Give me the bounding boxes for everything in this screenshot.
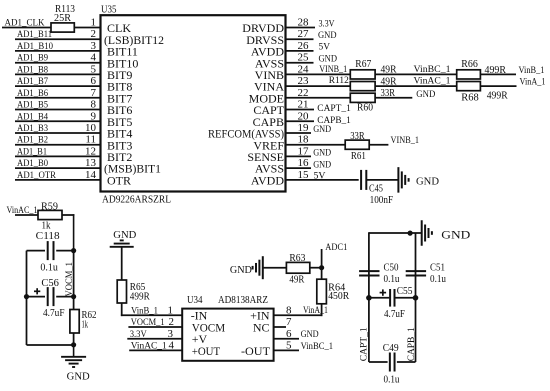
pin number 10 — [85, 122, 97, 134]
svg-text:3.3V: 3.3V — [319, 18, 335, 28]
wire C118 right — [56, 250, 73, 252]
wire net VinB_1 — [480, 73, 516, 75]
wire C55 right — [395, 297, 415, 299]
svg-text:12: 12 — [85, 145, 96, 157]
node label ADC1 — [325, 243, 347, 253]
svg-text:OTR: OTR — [107, 174, 131, 188]
svg-text:GND: GND — [313, 149, 331, 159]
resistor R112 49R — [350, 76, 397, 90]
pin number 1 — [168, 304, 174, 316]
wire net AD1_B7 pin 6 — [15, 85, 101, 87]
node label AD1_B7 — [17, 77, 48, 87]
wire CAPB_1 vertical — [415, 233, 417, 362]
svg-text:13: 13 — [85, 157, 97, 169]
U35 pin name CAPT — [253, 103, 284, 117]
wire pin 23 VINA — [286, 85, 350, 87]
U34 pin name +IN — [250, 309, 270, 323]
svg-text:VinBC_1: VinBC_1 — [414, 65, 451, 75]
svg-text:VOCM_1: VOCM_1 — [131, 318, 165, 328]
svg-text:0.1u: 0.1u — [384, 375, 400, 386]
svg-text:GND: GND — [319, 54, 338, 64]
wire U34 pin 8 to R64 — [274, 304, 323, 316]
power label GND left of R63 — [230, 265, 252, 276]
pin number 2 — [91, 28, 97, 40]
svg-text:C49: C49 — [383, 343, 399, 354]
svg-text:-OUT: -OUT — [241, 344, 271, 358]
U35 pin name VINB — [255, 68, 284, 82]
power ground GND top right — [422, 220, 471, 246]
node label GND — [319, 54, 338, 64]
pin number 6 — [91, 75, 97, 87]
wire pin 27 to GND — [286, 38, 314, 40]
wire C56 left — [27, 296, 46, 298]
node label VinA_1 — [520, 78, 546, 88]
svg-text:VinA_1: VinA_1 — [303, 306, 328, 316]
svg-text:6: 6 — [286, 328, 292, 340]
svg-text:ADC1: ADC1 — [325, 243, 347, 253]
power ground bars — [253, 256, 263, 279]
node label CAPB_1 — [317, 116, 351, 126]
U35 pin name (MSB)BIT1 — [104, 162, 161, 176]
svg-text:1: 1 — [91, 17, 97, 29]
wire GND to R65 — [121, 247, 123, 280]
svg-text:5V: 5V — [314, 172, 326, 182]
wire R62 to ground node — [73, 333, 75, 345]
svg-text:AD1_B0: AD1_B0 — [17, 159, 48, 169]
svg-text:CAPB_1: CAPB_1 — [407, 327, 417, 361]
svg-text:C50: C50 — [384, 262, 399, 273]
U35 pin name AVSS — [255, 162, 284, 176]
node junction C55 left — [366, 295, 372, 301]
resistor R68 499R — [457, 82, 508, 104]
pin number 23 — [298, 75, 310, 87]
pin number 7 — [91, 87, 97, 99]
node label AD1_CLK — [5, 19, 45, 29]
wire net AD1_OTR pin 14 — [15, 179, 101, 181]
U35 pin name BIT9 — [107, 68, 132, 82]
wire net AD1_B8 pin 5 — [15, 73, 101, 75]
wire net AD1_B1 pin 12 — [15, 155, 101, 157]
U35 pin name CAPB — [253, 115, 284, 129]
svg-text:GND: GND — [416, 90, 435, 100]
U35 pin name DRVDD — [242, 21, 284, 35]
wire pin 17 to GND — [286, 155, 311, 157]
svg-text:VINB_1: VINB_1 — [319, 64, 347, 74]
svg-text:AD1_B1: AD1_B1 — [17, 147, 47, 157]
U34 pin name -OUT — [241, 344, 271, 358]
svg-text:7: 7 — [286, 316, 292, 328]
wire net AD1_B9 pin 4 — [15, 62, 101, 64]
svg-text:GND: GND — [67, 372, 90, 383]
U35 pin name AVDD — [251, 45, 284, 59]
wire VOCM_1 vertical — [73, 250, 75, 310]
pin number 11 — [85, 134, 96, 146]
pin number 6 — [286, 328, 292, 340]
node junction ground — [71, 342, 76, 347]
svg-text:C118: C118 — [36, 231, 60, 242]
wire pin 19 to GND — [286, 132, 311, 134]
U34 pin name -IN — [191, 309, 208, 323]
resistor R60 33R — [350, 88, 395, 113]
wire pin 28 to 3.3V — [286, 27, 315, 29]
node label CAPB_1 (rotated) — [407, 327, 417, 361]
svg-text:R67: R67 — [355, 59, 371, 70]
U35 pin name BIT6 — [107, 103, 132, 117]
node label AD1_B10 — [17, 42, 53, 52]
node junction ADC1 — [319, 265, 324, 270]
wire C56 right — [56, 296, 73, 298]
node label VinBC_1 — [414, 65, 451, 75]
node label VOCM_1 — [131, 318, 165, 328]
U35 pin name CLK — [107, 21, 131, 35]
svg-text:GND: GND — [313, 125, 331, 135]
wire pin 20 CAPB — [286, 120, 314, 122]
node label GND — [313, 160, 331, 170]
svg-text:AD1_B10: AD1_B10 — [17, 42, 53, 52]
svg-text:R60: R60 — [357, 102, 373, 113]
U35 pin name BIT11 — [107, 45, 138, 59]
U35 pin name BIT4 — [107, 127, 132, 141]
wire net AD1_B6 pin 7 — [15, 97, 101, 99]
wire net AD1_B5 pin 8 — [15, 109, 101, 111]
node label VINB_1 — [391, 136, 420, 146]
U35 pin name BIT7 — [107, 91, 132, 105]
svg-text:450R: 450R — [328, 291, 349, 302]
U35 pin name VINA — [254, 80, 284, 94]
IC U35 AD9226ARSZRL body — [101, 5, 286, 206]
wire net VinBC_1 — [375, 73, 457, 75]
pin number 26 — [298, 40, 310, 52]
wire 3.3V to U34 pin 3 — [127, 338, 182, 340]
svg-text:5V: 5V — [319, 42, 331, 52]
capacitor C50 0.1u — [359, 262, 399, 285]
wire pin 25 to GND — [286, 62, 314, 64]
wire C55 left — [369, 297, 389, 299]
wire bottom rail right — [397, 361, 416, 363]
capacitor C49 0.1u — [383, 343, 400, 386]
wire pin 24 VINB_1 — [286, 73, 350, 75]
svg-text:GND: GND — [416, 176, 439, 188]
svg-text:0.1u: 0.1u — [384, 274, 400, 285]
node label AD1_B4 — [17, 112, 48, 122]
svg-text:VinAC_1: VinAC_1 — [414, 77, 451, 87]
wire C45 to GND — [366, 179, 398, 181]
pin number 24 — [298, 63, 310, 75]
svg-text:100nF: 100nF — [370, 195, 394, 206]
svg-text:AD1_B9: AD1_B9 — [17, 54, 48, 64]
svg-text:GND: GND — [301, 330, 319, 340]
pin number 19 — [298, 122, 310, 134]
svg-text:R66: R66 — [461, 59, 478, 70]
svg-text:3: 3 — [91, 40, 97, 52]
node label AD1_B0 — [17, 159, 48, 169]
svg-text:0.1u: 0.1u — [40, 263, 58, 274]
U34 pin name NC — [253, 320, 270, 334]
svg-text:AD1_B4: AD1_B4 — [17, 112, 48, 122]
pin number 16 — [298, 157, 310, 169]
capacitor C118 0.1u — [36, 231, 60, 273]
svg-text:7: 7 — [91, 87, 97, 99]
pin number 27 — [298, 28, 310, 40]
node label GND — [416, 90, 435, 100]
svg-text:C51: C51 — [430, 262, 445, 273]
resistor R65 499R — [117, 280, 150, 303]
U35 pin name DRVSS — [246, 33, 284, 47]
svg-text:AVDD: AVDD — [251, 174, 284, 188]
wire VinAC_1 to U34 pin 4 — [129, 349, 182, 351]
svg-text:VinB_1: VinB_1 — [131, 306, 158, 316]
U35 pin name VREF — [253, 138, 284, 152]
svg-text:11: 11 — [85, 134, 96, 146]
svg-text:VinBC_1: VinBC_1 — [301, 342, 334, 352]
node label VINB_1 — [319, 64, 347, 74]
node label GND — [313, 125, 331, 135]
resistor R113 25R — [51, 4, 75, 32]
U35 pin name AVSS — [255, 56, 284, 70]
svg-text:AD1_OTR: AD1_OTR — [17, 171, 57, 181]
svg-text:1: 1 — [168, 304, 174, 316]
node VOCM_1 junction C118 — [71, 248, 76, 253]
U34 pin name +OUT — [192, 344, 221, 358]
node label VinA_1 — [303, 306, 328, 316]
resistor R64 450R — [317, 279, 350, 304]
wire R63 to node ADC1 — [310, 267, 322, 269]
U35 pin name MODE — [249, 91, 284, 105]
node junction C56 right — [71, 294, 76, 299]
node label CAPT_1 (rotated) — [360, 327, 370, 361]
svg-text:CAPT_1: CAPT_1 — [317, 104, 351, 114]
pin number 8 — [286, 304, 292, 316]
pin number 4 — [91, 52, 97, 64]
svg-text:R112: R112 — [329, 76, 349, 86]
svg-text:CAPT_1: CAPT_1 — [360, 327, 370, 361]
svg-text:14: 14 — [85, 169, 97, 181]
svg-text:AD1_B3: AD1_B3 — [17, 124, 48, 134]
svg-text:10: 10 — [85, 122, 97, 134]
svg-text:9: 9 — [91, 110, 97, 122]
pin number 12 — [85, 145, 96, 157]
U35 pin name BIT2 — [107, 150, 132, 164]
resistor R66 499R — [457, 59, 507, 79]
node label GND — [301, 330, 319, 340]
svg-text:AD1_B8: AD1_B8 — [17, 65, 48, 75]
resistor R61 33R — [345, 131, 369, 162]
node junction top rail — [408, 231, 413, 236]
svg-text:C56: C56 — [41, 278, 59, 289]
node label VinAC_1 — [414, 77, 451, 87]
svg-text:AD1_CLK: AD1_CLK — [5, 19, 45, 29]
node label AD1_B5 — [17, 101, 48, 111]
wire R113 to U35 pin 1 — [74, 27, 100, 29]
resistor R63 49R — [286, 253, 309, 285]
wire U34 pin 5 VinBC_1 — [274, 349, 299, 351]
wire bottom branch — [27, 344, 74, 346]
node label AD1_B3 — [17, 124, 48, 134]
svg-text:GND: GND — [113, 230, 136, 241]
svg-text:4.7uF: 4.7uF — [384, 309, 405, 320]
node label GND — [318, 30, 337, 40]
pin number 22 — [298, 87, 309, 99]
U35 pin name REFCOM(AVSS) — [208, 127, 284, 141]
svg-text:AD1_B7: AD1_B7 — [17, 77, 48, 87]
pin number 3 — [168, 328, 174, 340]
wire net AD1_B3 pin 10 — [15, 132, 101, 134]
node label AD1_B8 — [17, 65, 48, 75]
svg-text:4: 4 — [91, 52, 97, 64]
U34 pin name VOCM — [192, 320, 226, 334]
svg-text:499R: 499R — [487, 90, 508, 101]
svg-text:4: 4 — [169, 340, 175, 352]
svg-text:R59: R59 — [41, 201, 58, 212]
svg-text:VinA_1: VinA_1 — [520, 78, 546, 88]
pin number 18 — [298, 134, 310, 146]
node label CAPT_1 — [317, 104, 351, 114]
svg-text:5: 5 — [91, 63, 97, 75]
U35 pin name BIT3 — [107, 138, 132, 152]
node junction C55 right — [413, 295, 419, 301]
wire CAPT_1 vertical — [368, 232, 370, 362]
svg-text:AD9226ARSZRL: AD9226ARSZRL — [102, 195, 171, 206]
pin number 17 — [298, 145, 310, 157]
resistor R59 1k — [38, 201, 62, 231]
svg-text:3.3V: 3.3V — [130, 330, 147, 340]
node label VinAC_1 — [7, 206, 38, 216]
svg-text:5: 5 — [286, 340, 292, 352]
ground symbol GND — [61, 345, 90, 383]
pin number 5 — [91, 63, 97, 75]
pin number 9 — [91, 110, 97, 122]
svg-text:0.1u: 0.1u — [430, 274, 446, 285]
wire net AD1_B2 pin 11 — [15, 144, 101, 146]
U35 pin name OTR — [107, 174, 131, 188]
svg-text:AD8138ARZ: AD8138ARZ — [218, 295, 268, 306]
ground symbol flipped — [110, 240, 134, 246]
wire net AD1_CLK to R113 — [2, 27, 51, 29]
wire top CAPT rail — [369, 232, 422, 234]
wire left branch vertical — [26, 251, 28, 345]
U35 pin name BIT8 — [107, 80, 132, 94]
pin number 20 — [298, 110, 310, 122]
pin number 5 — [286, 340, 292, 352]
node label 5V — [314, 172, 326, 182]
pin number 14 — [85, 169, 97, 181]
svg-text:GND: GND — [230, 265, 252, 276]
svg-text:NC: NC — [253, 320, 270, 334]
node label AD1_B6 — [17, 89, 48, 99]
wire net AD1_B11 pin 2 — [15, 38, 101, 40]
pin number 13 — [85, 157, 97, 169]
capacitor C56 4.7uF polarized — [34, 278, 65, 319]
capacitor C55 4.7uF polarized — [380, 286, 413, 320]
svg-text:8: 8 — [286, 304, 292, 316]
wire pin 21 CAPT — [286, 109, 314, 111]
node label AD1_B2 — [17, 136, 48, 146]
svg-text:R68: R68 — [461, 93, 479, 104]
wire node to ADC1 label — [321, 249, 323, 268]
svg-text:AD1_B2: AD1_B2 — [17, 136, 48, 146]
svg-text:VinAC_1: VinAC_1 — [131, 342, 167, 352]
node label 3.3V — [319, 18, 335, 28]
wire R60 to GND label — [375, 97, 412, 99]
svg-text:R63: R63 — [289, 253, 305, 264]
resistor R62 1k — [70, 310, 97, 334]
pin number 4 — [169, 340, 175, 352]
node label 3.3V — [130, 330, 147, 340]
svg-text:R61: R61 — [351, 151, 366, 162]
wire pin 22 MODE — [286, 97, 350, 99]
pin number 3 — [91, 40, 97, 52]
svg-text:2: 2 — [91, 28, 97, 40]
svg-text:AD1_B6: AD1_B6 — [17, 89, 48, 99]
wire C118 left — [27, 250, 46, 252]
svg-text:AD1_B5: AD1_B5 — [17, 101, 48, 111]
svg-text:6: 6 — [91, 75, 97, 87]
wire net AD1_B0 pin 13 — [15, 167, 101, 169]
svg-text:33R: 33R — [350, 131, 365, 142]
svg-text:3: 3 — [168, 328, 174, 340]
reference label R112 — [329, 76, 349, 86]
node label VOCM_1 (rotated) — [65, 262, 75, 297]
U35 pin name AVDD — [251, 174, 284, 188]
wire VOCM_1 to U34 pin 2 — [128, 326, 182, 328]
wire net VinAC_1 — [375, 85, 457, 87]
capacitor C45 100nF — [361, 170, 393, 206]
wire pin 16 to GND — [286, 167, 311, 169]
pin number 21 — [298, 99, 309, 111]
svg-text:2: 2 — [169, 316, 175, 328]
U34 pin name +V — [192, 332, 208, 346]
power ground GND — [398, 167, 439, 193]
svg-text:1k: 1k — [82, 319, 89, 330]
svg-text:GND: GND — [318, 30, 337, 40]
pin number 28 — [298, 17, 310, 29]
wire ADC1 node to R64 — [321, 268, 323, 280]
resistor R67 49R — [350, 59, 397, 79]
wire pin 26 to 5V — [286, 50, 314, 52]
capacitor C51 0.1u — [406, 262, 446, 285]
svg-text:AD1_B11: AD1_B11 — [17, 30, 52, 40]
svg-text:C55: C55 — [397, 286, 413, 297]
wire R65 to U34 pin 1 — [121, 303, 182, 316]
svg-text:+OUT: +OUT — [192, 344, 221, 358]
node label AD1_B9 — [17, 54, 48, 64]
wire net AD1_B4 pin 9 — [15, 120, 101, 122]
U35 pin name SENSE — [247, 150, 284, 164]
power label GND above R65 — [113, 230, 136, 241]
svg-text:GND: GND — [441, 228, 470, 242]
wire R61 to VINB_1 — [369, 144, 388, 146]
wire net VinA_1 — [480, 85, 516, 87]
pin number 2 — [169, 316, 175, 328]
node label VinBC_1 — [301, 342, 334, 352]
wire bottom rail left — [369, 361, 388, 363]
wire net AD1_B10 pin 3 — [15, 50, 101, 52]
wire pin 15 AVDD 5V — [286, 179, 359, 181]
node label AD1_B1 — [17, 147, 47, 157]
pin number 25 — [298, 52, 310, 64]
node label AD1_OTR — [17, 171, 57, 181]
svg-text:C45: C45 — [369, 184, 383, 195]
node label VinB_1 — [519, 66, 545, 76]
IC U34 AD8138ARZ body — [182, 295, 273, 361]
svg-text:8: 8 — [91, 99, 97, 111]
wire GND to R63 — [263, 267, 287, 269]
svg-text:VinB_1: VinB_1 — [519, 66, 545, 76]
pin number 15 — [298, 169, 310, 181]
wire pin 18 VREF — [286, 144, 345, 146]
wire VinAC_1 to R59 — [15, 214, 38, 216]
node junction C56 left — [24, 294, 29, 299]
